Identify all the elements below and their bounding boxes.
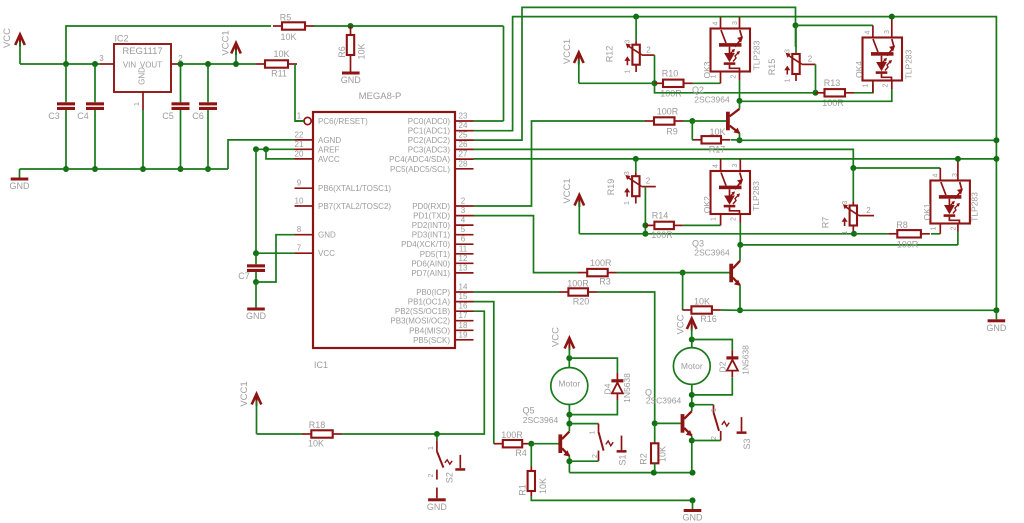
pin stub bbox=[720, 159, 722, 171]
svg-text:1: 1 bbox=[863, 83, 870, 87]
wire bbox=[568, 456, 570, 472]
svg-text:20: 20 bbox=[295, 149, 304, 158]
svg-text:10: 10 bbox=[295, 197, 304, 206]
wire bbox=[228, 140, 295, 169]
resistor R6 10K bbox=[337, 26, 367, 72]
wire bbox=[854, 233, 888, 235]
wire bbox=[531, 443, 559, 445]
svg-text:PC4(ADC4/SDA): PC4(ADC4/SDA) bbox=[389, 155, 450, 164]
transistor Q4 2SC3964 bbox=[645, 387, 693, 436]
junction bbox=[955, 156, 961, 162]
junction bbox=[993, 137, 999, 143]
resistor R5 10K bbox=[273, 13, 314, 43]
svg-text:5: 5 bbox=[461, 225, 466, 234]
svg-text:22: 22 bbox=[295, 130, 304, 139]
resistor R20 100R bbox=[559, 279, 597, 307]
svg-text:1: 1 bbox=[590, 430, 597, 434]
wire bbox=[693, 82, 721, 84]
svg-text:10K: 10K bbox=[280, 32, 296, 42]
svg-text:PC2(ADC2): PC2(ADC2) bbox=[408, 136, 451, 145]
svg-text:GND: GND bbox=[341, 75, 362, 85]
svg-text:1N5638: 1N5638 bbox=[741, 345, 751, 375]
svg-text:21: 21 bbox=[295, 140, 304, 149]
svg-text:PC6(/RESET): PC6(/RESET) bbox=[318, 117, 368, 126]
junction bbox=[253, 279, 259, 285]
junction bbox=[205, 166, 211, 172]
svg-text:2: 2 bbox=[711, 436, 718, 440]
svg-text:Q5: Q5 bbox=[522, 406, 534, 416]
wire bbox=[645, 233, 854, 235]
svg-text:C6: C6 bbox=[192, 111, 204, 121]
svg-text:C7: C7 bbox=[238, 271, 250, 281]
svg-text:2: 2 bbox=[731, 217, 738, 221]
svg-text:24: 24 bbox=[459, 121, 468, 130]
wire bbox=[691, 385, 693, 412]
svg-text:2: 2 bbox=[428, 473, 435, 477]
svg-text:3: 3 bbox=[732, 21, 739, 25]
svg-text:11: 11 bbox=[459, 244, 468, 253]
wire PC2 rail bbox=[474, 7, 796, 140]
svg-text:2SC3964: 2SC3964 bbox=[694, 95, 730, 105]
wire bbox=[682, 273, 684, 310]
svg-text:C4: C4 bbox=[77, 111, 89, 121]
junction bbox=[233, 61, 239, 67]
junction bbox=[642, 222, 648, 228]
wire VCC1 rail bbox=[579, 233, 645, 235]
ground bbox=[10, 169, 31, 191]
capacitor C6 bbox=[192, 64, 217, 169]
junction bbox=[178, 166, 184, 172]
svg-text:3: 3 bbox=[625, 40, 632, 44]
svg-text:Q2: Q2 bbox=[692, 85, 704, 95]
wire bbox=[569, 400, 617, 415]
wire PB2 to R18 rail bbox=[342, 311, 485, 434]
svg-text:100R: 100R bbox=[657, 107, 679, 117]
svg-text:R4: R4 bbox=[515, 448, 527, 458]
resistor R1 10K bbox=[518, 444, 549, 496]
wire bbox=[20, 63, 100, 65]
wire bbox=[739, 245, 741, 261]
svg-text:3: 3 bbox=[732, 163, 739, 167]
svg-text:PD0(RXD): PD0(RXD) bbox=[412, 202, 450, 211]
wire PD0 to R9 bbox=[474, 121, 646, 206]
wire bbox=[815, 64, 817, 92]
wire bbox=[692, 440, 721, 442]
wire bbox=[692, 377, 733, 395]
wire PB0 to R20 bbox=[474, 291, 560, 293]
capacitor C4 bbox=[77, 64, 104, 169]
junction bbox=[178, 61, 184, 67]
svg-text:PB7(XTAL2/TOSC2): PB7(XTAL2/TOSC2) bbox=[318, 202, 391, 211]
svg-text:1: 1 bbox=[785, 78, 792, 82]
svg-text:2SC3964: 2SC3964 bbox=[523, 415, 559, 425]
svg-text:25: 25 bbox=[459, 131, 468, 140]
svg-text:PD4(XCK/T0): PD4(XCK/T0) bbox=[401, 240, 450, 249]
resistor R2 10K bbox=[639, 423, 668, 472]
svg-text:VCC: VCC bbox=[551, 327, 562, 347]
transistor Q5 2SC3964 bbox=[522, 406, 570, 457]
power flag VCC1 bbox=[562, 178, 584, 233]
svg-text:TLP283: TLP283 bbox=[904, 49, 914, 79]
pin stub bbox=[739, 214, 741, 223]
switch S3 bbox=[711, 405, 752, 450]
trimmer R7 bbox=[821, 201, 874, 235]
svg-text:14: 14 bbox=[459, 283, 468, 292]
ground bbox=[683, 500, 704, 522]
junction bbox=[889, 14, 895, 20]
svg-text:Motor: Motor bbox=[558, 379, 580, 389]
optocoupler OK3 TLP283 bbox=[711, 29, 751, 72]
capacitor C3 bbox=[48, 64, 75, 169]
junction bbox=[689, 402, 695, 408]
pin stub bbox=[891, 17, 893, 38]
wire bbox=[740, 89, 892, 101]
svg-text:3: 3 bbox=[99, 54, 104, 63]
svg-text:1: 1 bbox=[132, 102, 141, 106]
power flag VCC1 bbox=[239, 381, 261, 434]
svg-text:R13: R13 bbox=[824, 78, 841, 88]
svg-text:2SC3964: 2SC3964 bbox=[646, 395, 682, 405]
svg-text:17: 17 bbox=[459, 311, 468, 320]
wire bbox=[683, 224, 721, 226]
resistor R17 10K bbox=[693, 127, 731, 155]
svg-text:AVCC: AVCC bbox=[318, 155, 340, 164]
svg-text:100R: 100R bbox=[897, 240, 919, 250]
svg-text:26: 26 bbox=[459, 140, 468, 149]
svg-text:R10: R10 bbox=[662, 69, 679, 79]
svg-text:OK4: OK4 bbox=[854, 61, 864, 78]
svg-text:2SC3964: 2SC3964 bbox=[694, 248, 730, 258]
svg-text:1: 1 bbox=[711, 408, 718, 412]
svg-text:VCC1: VCC1 bbox=[562, 178, 573, 203]
optocoupler OK1 TLP283 bbox=[930, 181, 970, 224]
pin stub bbox=[739, 159, 741, 171]
svg-text:9: 9 bbox=[297, 179, 302, 188]
junction bbox=[566, 412, 572, 418]
svg-text:2: 2 bbox=[808, 55, 813, 64]
resistor R4 100R bbox=[494, 430, 531, 458]
svg-text:REG1117: REG1117 bbox=[122, 46, 162, 57]
wire bbox=[579, 82, 655, 84]
svg-text:TLP283: TLP283 bbox=[752, 40, 762, 70]
svg-text:PB4(MISO): PB4(MISO) bbox=[409, 326, 450, 335]
wire bbox=[739, 223, 741, 245]
junction bbox=[652, 420, 658, 426]
svg-text:S1: S1 bbox=[618, 454, 628, 465]
svg-text:2: 2 bbox=[866, 206, 871, 215]
resistor R10 100R bbox=[654, 69, 693, 99]
wire bbox=[721, 309, 740, 311]
svg-text:4: 4 bbox=[713, 21, 720, 25]
power flag VCC bbox=[676, 314, 697, 339]
wire bbox=[795, 25, 797, 46]
wire OK1 to Q3 rail bbox=[740, 244, 958, 246]
pin stub bbox=[739, 17, 741, 28]
capacitor C5 bbox=[162, 64, 189, 169]
wire S3 top bbox=[692, 404, 714, 406]
svg-text:R15: R15 bbox=[767, 59, 777, 76]
wire bottom rail bbox=[531, 496, 692, 500]
svg-text:1N5638: 1N5638 bbox=[622, 373, 632, 403]
svg-text:GND: GND bbox=[427, 502, 448, 512]
svg-text:PB0(ICP): PB0(ICP) bbox=[416, 288, 450, 297]
pin stub bbox=[872, 81, 874, 93]
junction bbox=[680, 270, 686, 276]
wire bbox=[295, 64, 304, 121]
svg-text:1: 1 bbox=[711, 217, 718, 221]
junction bbox=[642, 231, 648, 237]
svg-text:AREF: AREF bbox=[318, 145, 339, 154]
power flag VCC bbox=[551, 327, 575, 358]
wire bbox=[569, 358, 617, 373]
svg-text:100R: 100R bbox=[651, 230, 673, 240]
svg-text:10K: 10K bbox=[308, 439, 324, 449]
svg-text:R18: R18 bbox=[309, 420, 326, 430]
junction bbox=[689, 337, 695, 343]
resistor R13 100R bbox=[816, 78, 855, 108]
junction bbox=[850, 165, 856, 171]
wire PC3 rail bbox=[474, 149, 941, 168]
svg-text:13: 13 bbox=[459, 263, 468, 272]
junction bbox=[690, 470, 696, 476]
svg-text:100R: 100R bbox=[822, 98, 844, 108]
wire S1 top bbox=[569, 423, 598, 425]
svg-text:GND: GND bbox=[246, 311, 267, 321]
svg-text:GND: GND bbox=[986, 323, 1007, 333]
svg-text:R8: R8 bbox=[896, 220, 908, 230]
svg-text:PB3(MOSI/OC2): PB3(MOSI/OC2) bbox=[390, 317, 450, 326]
junction bbox=[566, 458, 572, 464]
wire bbox=[931, 233, 940, 235]
wire VCC pin7 bbox=[256, 252, 295, 254]
svg-text:R12: R12 bbox=[605, 46, 615, 63]
wire bbox=[568, 358, 570, 368]
svg-text:IC1: IC1 bbox=[314, 360, 328, 370]
pin stub bbox=[720, 72, 722, 84]
junction bbox=[993, 307, 999, 313]
svg-text:R11: R11 bbox=[271, 69, 287, 79]
svg-text:PB2(SS/OC1B): PB2(SS/OC1B) bbox=[395, 307, 450, 316]
svg-text:10K: 10K bbox=[273, 49, 289, 59]
svg-text:PC0(ADC0): PC0(ADC0) bbox=[408, 117, 451, 126]
svg-text:3: 3 bbox=[624, 171, 631, 175]
svg-text:AGND: AGND bbox=[318, 136, 341, 145]
svg-text:R2: R2 bbox=[639, 453, 649, 465]
svg-text:R9: R9 bbox=[666, 127, 678, 137]
wire GND rail bbox=[20, 168, 229, 170]
wire bbox=[654, 55, 656, 83]
svg-text:GND: GND bbox=[10, 181, 31, 191]
junction bbox=[851, 231, 857, 237]
optocoupler OK2 TLP283 bbox=[711, 171, 751, 214]
svg-text:R3: R3 bbox=[599, 277, 611, 287]
junction bbox=[633, 14, 639, 20]
svg-text:PD6(AIN0): PD6(AIN0) bbox=[411, 259, 450, 268]
ground bbox=[342, 72, 360, 75]
power flag VCC bbox=[2, 28, 25, 64]
svg-text:Motor: Motor bbox=[681, 361, 703, 371]
svg-text:1: 1 bbox=[711, 74, 718, 78]
resistor R11 10K bbox=[256, 49, 297, 79]
junction bbox=[652, 80, 658, 86]
junction bbox=[737, 307, 743, 313]
svg-text:7: 7 bbox=[297, 244, 302, 253]
svg-text:100R: 100R bbox=[590, 258, 612, 268]
junction bbox=[737, 98, 743, 104]
power flag VCC1 bbox=[221, 30, 241, 64]
wire bbox=[255, 149, 257, 253]
junction bbox=[737, 137, 743, 143]
svg-text:GND: GND bbox=[683, 513, 704, 523]
svg-text:1: 1 bbox=[625, 69, 632, 73]
svg-text:S2: S2 bbox=[445, 472, 455, 483]
wire bbox=[314, 25, 504, 27]
junction bbox=[633, 156, 639, 162]
svg-text:16: 16 bbox=[459, 302, 468, 311]
svg-text:R19: R19 bbox=[606, 179, 616, 196]
svg-text:R14: R14 bbox=[652, 211, 669, 221]
wire bbox=[691, 436, 693, 473]
svg-text:PD5(T1): PD5(T1) bbox=[420, 250, 451, 259]
svg-text:3: 3 bbox=[785, 49, 792, 53]
wire bbox=[957, 232, 959, 245]
trimmer R19 bbox=[606, 171, 656, 205]
wire PC1 rail bbox=[474, 17, 997, 311]
wire bbox=[597, 292, 655, 423]
wire PB1 to R4 bbox=[474, 302, 494, 444]
junction bbox=[690, 497, 696, 503]
svg-text:19: 19 bbox=[459, 330, 468, 339]
wire bbox=[568, 404, 570, 431]
wire bbox=[569, 460, 598, 462]
svg-text:PC1(ADC1): PC1(ADC1) bbox=[408, 127, 451, 136]
svg-text:27: 27 bbox=[459, 150, 468, 159]
svg-text:PC3(ADC3): PC3(ADC3) bbox=[408, 145, 451, 154]
svg-text:PD3(INT1): PD3(INT1) bbox=[412, 231, 451, 240]
wire PC4 rail bbox=[474, 158, 997, 160]
svg-text:VCC1: VCC1 bbox=[239, 381, 250, 406]
resistor R3 100R bbox=[578, 258, 617, 287]
svg-text:15: 15 bbox=[459, 292, 468, 301]
wire AVCC bbox=[266, 149, 295, 159]
svg-text:1: 1 bbox=[297, 112, 302, 121]
junction bbox=[92, 61, 98, 67]
svg-text:4: 4 bbox=[933, 173, 940, 177]
optocoupler OK4 TLP283 bbox=[863, 38, 903, 81]
svg-text:R20: R20 bbox=[573, 297, 590, 307]
svg-text:IC2: IC2 bbox=[115, 34, 129, 44]
wire emitter rail bbox=[569, 472, 692, 474]
svg-text:R7: R7 bbox=[821, 217, 831, 229]
svg-text:28: 28 bbox=[459, 159, 468, 168]
capacitor C7 bbox=[238, 253, 265, 282]
wire bbox=[655, 422, 681, 424]
wire AREF bbox=[256, 148, 295, 150]
svg-text:PB1(OC1A): PB1(OC1A) bbox=[408, 298, 451, 307]
pin stub bbox=[720, 17, 722, 28]
junction bbox=[140, 166, 146, 172]
svg-text:1: 1 bbox=[930, 226, 937, 230]
wire bbox=[142, 110, 144, 169]
svg-text:1: 1 bbox=[624, 201, 631, 205]
wire bbox=[644, 187, 646, 234]
junction bbox=[566, 421, 572, 427]
svg-text:10K: 10K bbox=[709, 127, 725, 137]
svg-text:10K: 10K bbox=[694, 297, 710, 307]
svg-text:PC5(ADC5/SCL): PC5(ADC5/SCL) bbox=[390, 165, 450, 174]
junction bbox=[528, 441, 534, 447]
svg-text:10K: 10K bbox=[658, 446, 668, 462]
wire bbox=[635, 159, 637, 172]
wire emitter rail bbox=[740, 309, 996, 311]
junction bbox=[205, 61, 211, 67]
motor M2 bbox=[673, 348, 710, 385]
resistor R9 100R bbox=[645, 107, 684, 137]
svg-text:R17: R17 bbox=[709, 145, 726, 155]
svg-text:R16: R16 bbox=[700, 314, 717, 324]
svg-text:VCC1: VCC1 bbox=[221, 30, 232, 55]
wire bbox=[66, 26, 271, 64]
wire R17 rail bbox=[740, 139, 997, 141]
svg-text:PB5(SCK): PB5(SCK) bbox=[413, 336, 450, 345]
ground bbox=[427, 488, 448, 512]
wire bbox=[854, 84, 873, 93]
svg-text:TLP283: TLP283 bbox=[969, 192, 979, 222]
wire bbox=[503, 26, 505, 121]
svg-text:2: 2 bbox=[731, 74, 738, 78]
svg-text:PD2(INT0): PD2(INT0) bbox=[412, 221, 451, 230]
wire PD1 to R3 bbox=[474, 216, 579, 273]
junction bbox=[253, 250, 259, 256]
svg-text:4: 4 bbox=[713, 164, 720, 168]
junction bbox=[348, 23, 354, 29]
svg-text:PD1(TXD): PD1(TXD) bbox=[413, 212, 450, 221]
power flag VCC1 bbox=[562, 39, 584, 83]
junction bbox=[689, 438, 695, 444]
svg-text:12: 12 bbox=[459, 254, 468, 263]
wire bbox=[655, 83, 816, 93]
junction bbox=[63, 61, 69, 67]
svg-text:S3: S3 bbox=[742, 438, 752, 449]
svg-text:GND: GND bbox=[318, 231, 336, 240]
junction bbox=[993, 156, 999, 162]
junction bbox=[63, 166, 69, 172]
svg-text:10K: 10K bbox=[357, 43, 367, 59]
svg-text:2: 2 bbox=[883, 83, 890, 87]
svg-text:2: 2 bbox=[950, 226, 957, 230]
junction bbox=[689, 118, 695, 124]
junction bbox=[434, 431, 440, 437]
svg-text:2: 2 bbox=[461, 197, 466, 206]
ground bbox=[986, 310, 1007, 333]
trimmer R15 bbox=[767, 25, 816, 82]
wire bbox=[691, 340, 693, 348]
wire bbox=[635, 17, 637, 41]
svg-text:R6: R6 bbox=[337, 46, 347, 58]
diode D2 1N5638 bbox=[717, 345, 750, 377]
diode D4 1N5638 bbox=[603, 373, 632, 403]
motor M1 bbox=[551, 368, 588, 405]
pin stub bbox=[891, 81, 893, 90]
wire bbox=[731, 139, 740, 141]
wire bbox=[739, 80, 741, 101]
junction bbox=[263, 146, 269, 152]
wire bbox=[181, 63, 256, 65]
svg-text:3: 3 bbox=[461, 206, 466, 215]
svg-text:OK2: OK2 bbox=[702, 196, 712, 213]
svg-text:2: 2 bbox=[646, 45, 651, 54]
svg-text:1: 1 bbox=[428, 446, 435, 450]
